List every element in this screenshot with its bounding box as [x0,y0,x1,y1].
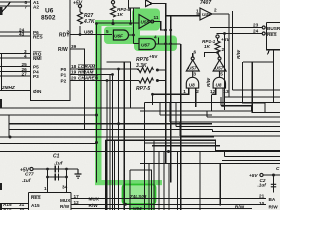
wire bus h y117.1 [207,111,280,117]
wire bus h y143.5 [0,143,97,145]
power circle +5v bottom left [30,167,33,170]
wire P6 pin 24 [0,31,31,33]
node c1b [65,168,68,171]
wire LORAM row [70,68,139,70]
wire RDY to U6F [70,34,112,36]
node rp76 b [156,79,159,82]
driver right bubble [218,57,221,60]
node hiram tap [111,73,114,76]
green blob U67 [134,36,177,52]
vertical line x124 [123,62,125,210]
wire P4 pin 26 [0,71,31,73]
wire right elbow y84 [233,89,281,91]
blob left edge mid [0,99,2,108]
green horizontal swath bottom [95,180,162,185]
node pin24 tap [223,32,226,35]
bottom wires A15 A14 [0,204,29,209]
inverter U58 output elbow [153,22,166,31]
vertical x229 [228,14,230,97]
vertical x180.6 [180,44,182,210]
node stack left input [151,93,154,96]
buffer 7407 body [200,8,212,20]
wire R/W net [71,204,266,206]
wire bus h y163.5 [140,163,280,165]
vertical x220 lower [219,164,221,206]
vertical pair from top box to U6F [131,8,134,44]
green top horizontal wire [97,22,140,24]
power circle RP1-1 [216,35,219,38]
wire bus h y135.8 [180,122,280,136]
wire P5 pin 25 [0,66,31,68]
U67 output wire [156,38,181,45]
node green h x130 [129,22,132,25]
node c77 b [65,176,68,179]
wire bus h y160.5 [222,160,280,162]
cap C2 [271,184,276,187]
wire elbow top [152,4,200,45]
wire left bus vertical [1,54,3,92]
wire NMI pin 4 [0,57,31,59]
green blob inverter U58 [132,9,160,31]
node y123.7 [117,122,120,125]
gate U6F body [113,30,128,40]
wire R/W out [70,49,85,130]
scan noise overlay [0,0,280,210]
wire bus h y121.8 [170,103,280,122]
wire P3 pin 27 [0,75,31,77]
node u67 out b [169,42,172,45]
node y115 green [95,114,98,117]
wire pin24 [217,34,263,111]
resistor RP2-8 [111,6,116,17]
vertical tap charen [106,81,108,211]
wire bus h y156.3 [225,152,280,157]
node u58 out b [169,29,172,32]
wire bus h y127.9 [176,103,280,127]
node y137 [9,136,12,139]
node bottom green [124,203,127,206]
node u6f out [132,34,135,37]
node c77 a [46,176,49,179]
wire RES pin 43 [0,35,31,37]
wire bus h y145.7 [152,145,220,147]
node green cross [95,22,98,25]
vertical x232.5 [232,11,234,90]
pin stub below box [268,50,270,55]
vertical tap hiram [112,75,114,211]
vertical x124.3 low [123,140,125,210]
node rdy pullup [79,33,82,36]
green vertical swath [95,20,102,184]
node u58 out a [164,29,167,32]
power circle RP2-8 [111,1,114,4]
partial gate top edge [146,0,153,7]
wire bus h y122 [9,115,212,137]
wire bus h y151.5 [0,151,280,153]
node charen tap [106,79,109,82]
green horizontal swath top [95,20,138,26]
node green v y142 [95,141,98,144]
vertical tap loram [118,69,120,210]
bus mesh linework [0,0,280,210]
node mesh y151 [167,150,170,153]
RP2-8 pulldown wire [112,4,114,24]
driver left inverter triangle [186,60,199,71]
node c1 [46,168,49,171]
vertical x200 [199,152,201,211]
wire bus h y113.5 [0,114,97,116]
7407 output wire [213,13,230,15]
power circle +5v bottom right [260,173,263,176]
vertical x252.2 [252,62,280,113]
green box bottom 74LS08 [123,185,156,205]
wire IRQ pin 3 [0,53,31,55]
green highlighter layer [95,9,177,211]
green-line wire vertical [96,24,98,183]
blob left edge low [0,183,2,190]
driver left bubble [191,57,194,60]
+5V C2 wires [263,175,280,193]
node u67 out a [164,42,167,45]
green patch below box [129,205,155,211]
node c2 [272,174,275,177]
wire x152.5 [152,94,154,105]
driver right and gate [213,71,225,88]
wire A2 pin 7 [0,5,31,7]
gate U67 body [139,39,156,50]
top right small box [129,0,140,8]
verticals bottom left group [106,75,119,211]
blob bottom left corner [0,204,2,210]
wire bus h y104.5 [0,107,144,109]
wire HIRAM row [70,74,113,76]
resistor RP1-1 [215,41,220,52]
RP1-1 elbow left [205,53,218,58]
scan artifact marks left edge [0,2,11,15]
wire bus h y129.5 [9,129,213,131]
resistor R27 [78,12,83,24]
node rp76 a [156,69,159,72]
bottom IC box [29,193,72,211]
wire bus h y114.9 [160,103,212,115]
inverter U58 bubble [151,20,154,23]
wire 2MHZ to phi-in [0,90,31,92]
C1 C77 second rail [48,176,67,178]
green blob U6F [104,27,140,45]
wire bus h y96.8 [225,96,280,98]
blob left edge top [0,7,3,15]
driver stack inputs left [153,88,196,107]
RP1-1 wires [218,38,220,57]
vertical x242.6 [243,62,265,113]
main black linework [0,0,280,210]
node rp28 [111,22,114,25]
node loram tap [117,68,120,71]
vertical x170.7 [170,16,172,183]
+5v C1 row [33,169,78,193]
left driver apex wire [192,53,194,57]
resistor RP7-5 [139,78,153,83]
wire bus h y142.9 [144,142,215,144]
black vertical x101 [100,35,102,131]
driver stack inputs right [211,88,223,107]
pin bubbles top right box [262,26,265,29]
wire bus h y140.2 [106,140,280,150]
resistor RP7-6 [139,68,153,73]
wire pin23 [210,27,262,29]
inverter U58 body [139,15,151,29]
wire bus h y102.5 right [144,103,280,211]
wire CHAREN row [70,80,139,82]
IC U6 8502 box [31,0,71,101]
wire MUX net [71,198,266,200]
cap C1 plates [55,166,58,173]
wire bus h y107 right [221,97,251,111]
wire bus h y110.9 [140,95,251,111]
ground symbol [75,169,82,178]
cap C77 plates [55,174,58,181]
box top right edge [266,23,280,50]
verticals bottom right group [149,140,178,210]
wire bus h y131.6 [213,130,281,132]
driver right inverter triangle [213,60,226,71]
wire bottom bus y208.5 [71,208,252,210]
R27 pullup wire [79,8,81,35]
scan blobs [0,7,3,210]
power circle +5V R27 [78,4,81,7]
buffer input wire [197,13,201,15]
vertical x273.6 [273,50,275,103]
wire A1 pin 8 [0,1,31,3]
elbow y62 [107,62,131,108]
pin34 wire [66,175,68,193]
wire elbow box step [130,170,152,210]
driver left and gate [186,71,198,88]
U6F output elbow to U67 [129,35,139,44]
wire h y61.9 right [243,61,274,63]
verticals right of RP7 [165,44,167,164]
resistor RP76 wires [119,69,166,81]
node rp11 [216,51,219,54]
wire bus h y137 [0,136,214,138]
